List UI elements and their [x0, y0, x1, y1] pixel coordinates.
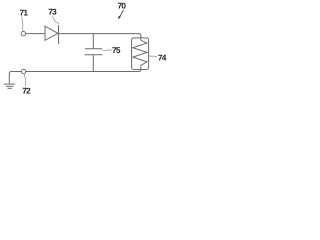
ground bar 1 [4, 83, 15, 85]
svg-text:75: 75 [112, 45, 121, 55]
capacitor 75 bottom stem [92, 55, 94, 72]
diode 73 triangle [45, 26, 58, 40]
leader 72 [25, 74, 26, 86]
svg-text:72: 72 [22, 85, 31, 95]
diode 73 cathode bar [58, 25, 60, 44]
wire: top rail from diode cathode to resistor top corner [59, 34, 141, 41]
leader 74 [149, 55, 157, 58]
svg-text:74: 74 [158, 53, 167, 63]
resistor 74 zigzag [133, 40, 147, 65]
ground bar 2 [6, 85, 14, 87]
terminal 71 circle [21, 31, 25, 35]
svg-text:73: 73 [48, 7, 57, 17]
capacitor 75 top stem [92, 34, 94, 49]
resistor 74 box [132, 38, 149, 70]
capacitor 75 top plate [85, 48, 102, 50]
svg-text:70: 70 [117, 1, 126, 11]
wire: bottom rail from ground corner to resistor bottom [9, 65, 141, 84]
ground bar 3 [8, 87, 12, 89]
terminal 72 circle [21, 69, 25, 73]
arrow 70 [120, 10, 124, 16]
svg-text:71: 71 [19, 8, 28, 18]
leader 75 [103, 49, 112, 52]
leader 73 [53, 16, 59, 24]
wire: terminal 71 to diode anode [26, 33, 46, 35]
capacitor 75 bottom plate [85, 54, 103, 56]
leader 71 [22, 17, 23, 32]
